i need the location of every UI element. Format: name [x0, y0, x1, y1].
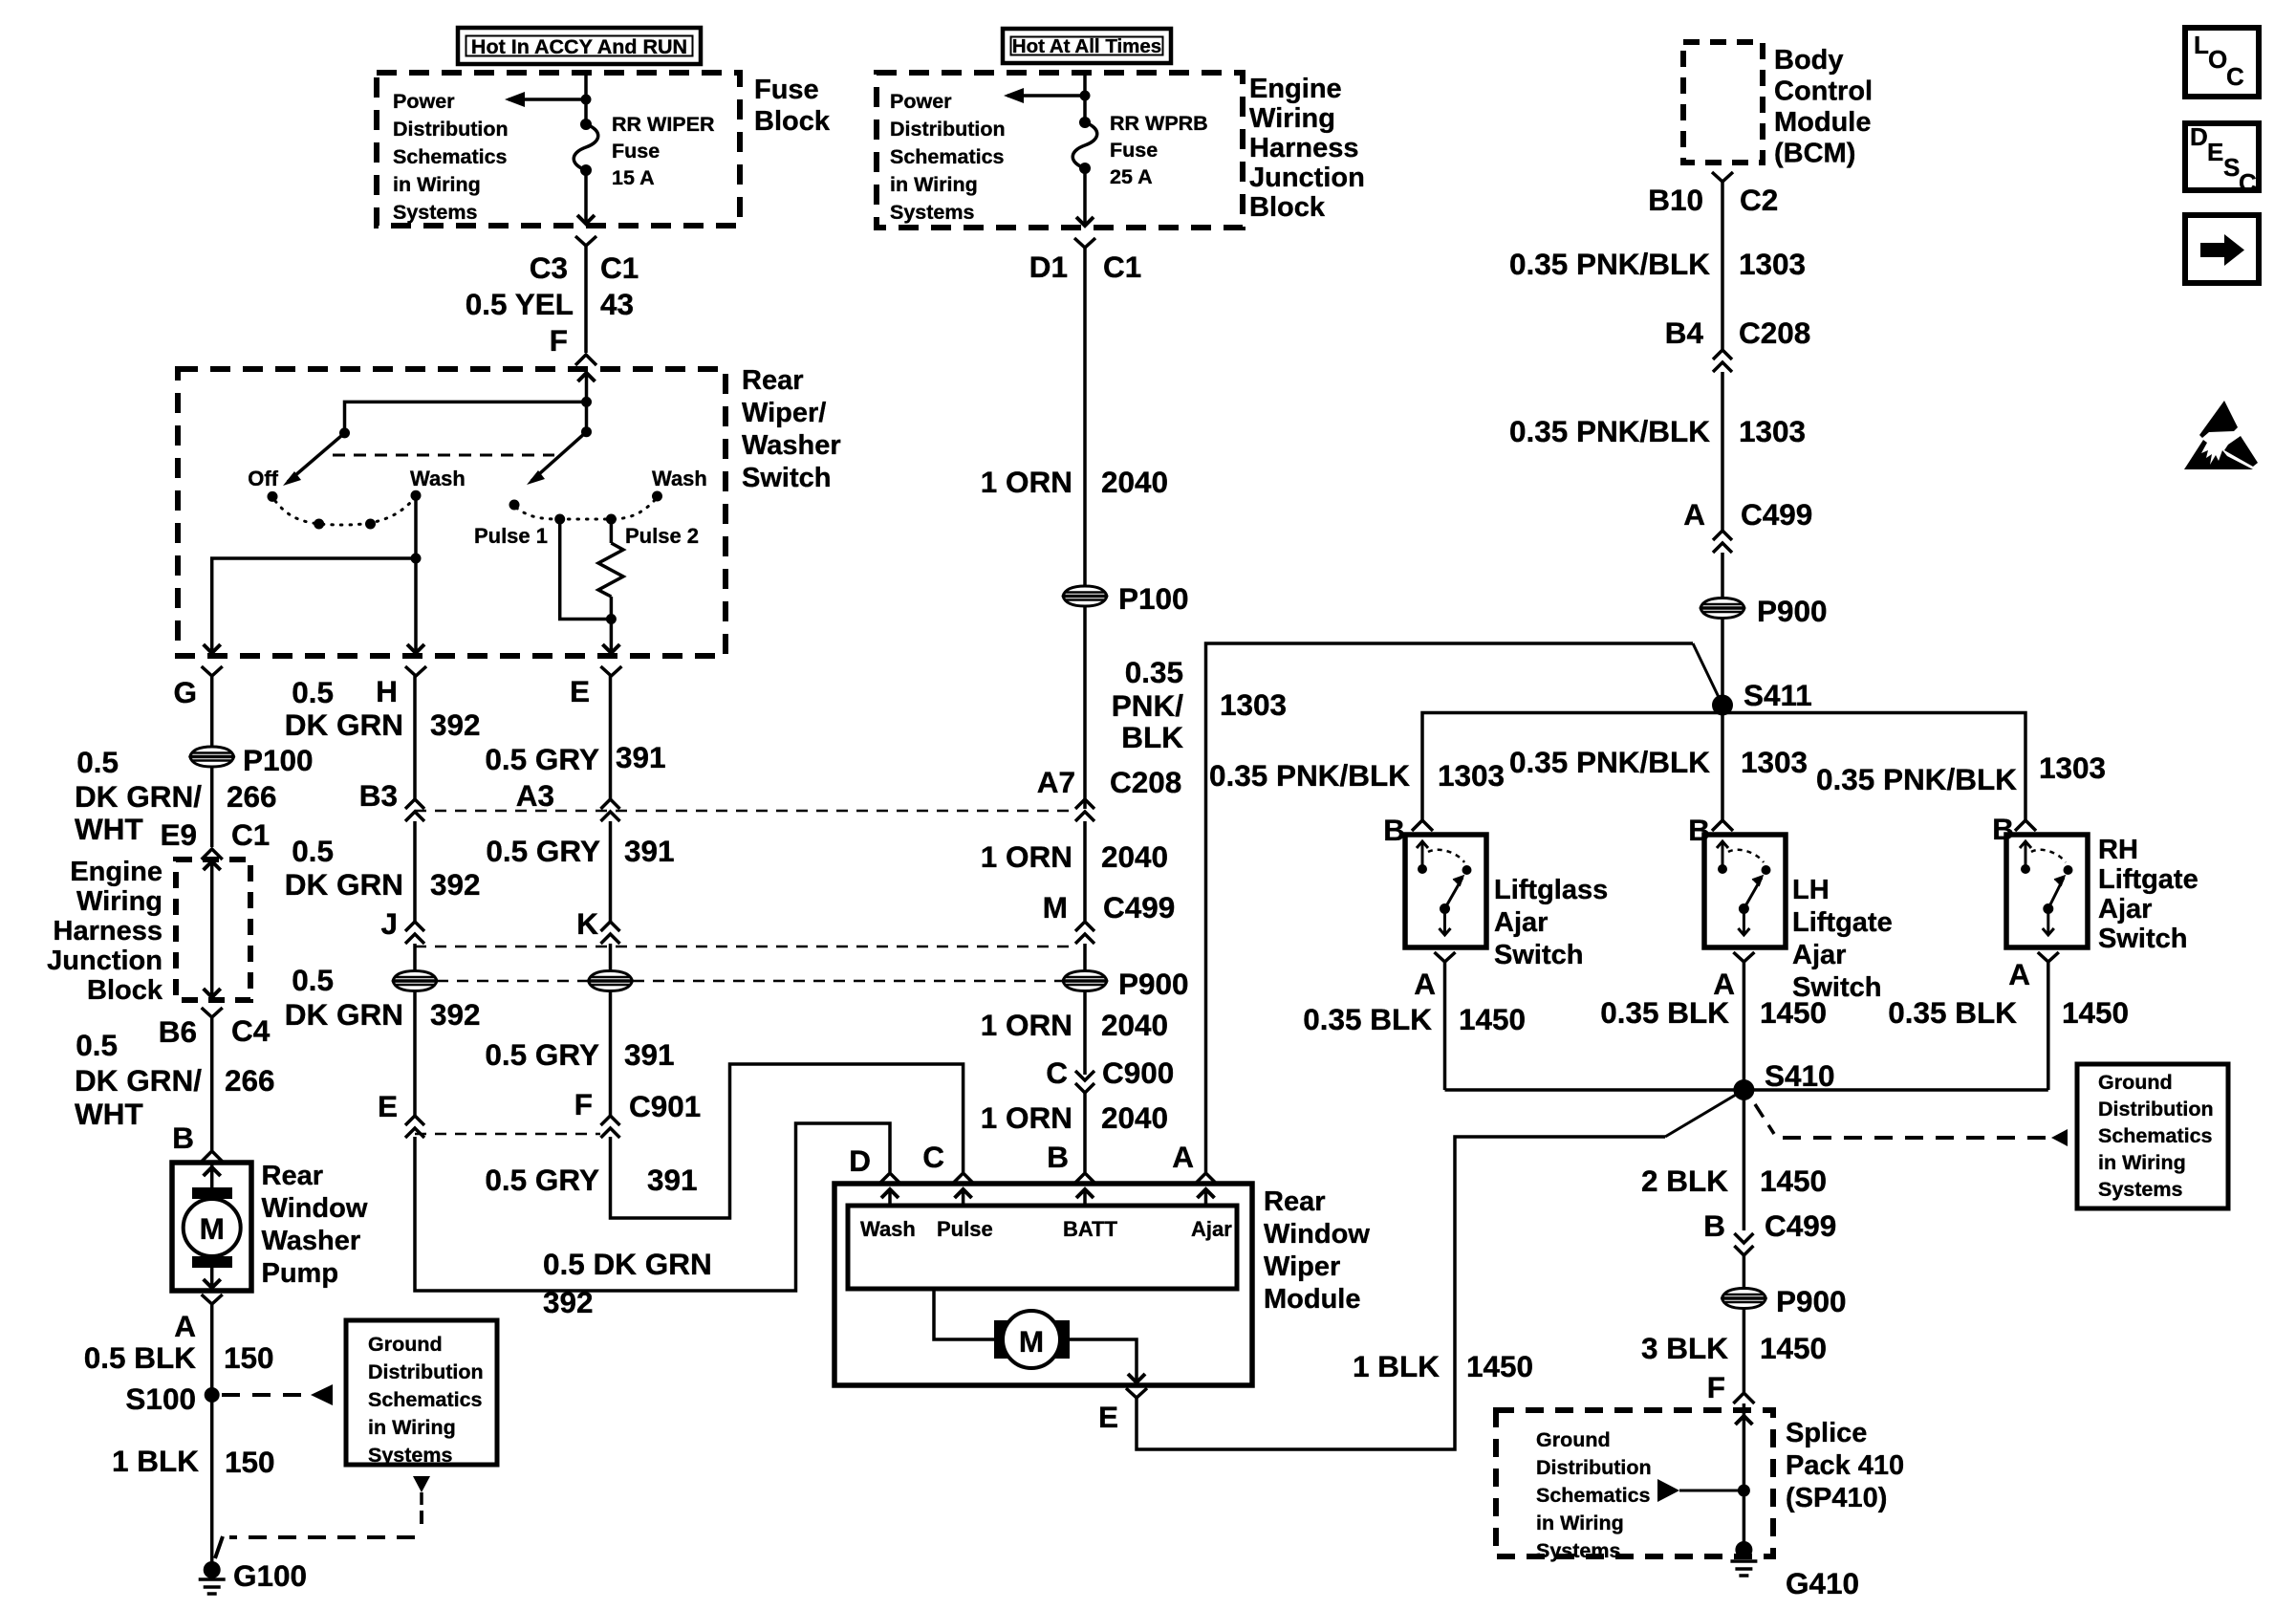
- dashed mechanical linkage: [333, 454, 554, 457]
- svg-text:392: 392: [430, 707, 481, 742]
- label: 0.5 YEL 43: [466, 287, 634, 321]
- svg-text:C208: C208: [1110, 765, 1181, 799]
- connector B/C499 (lower): [1703, 1208, 1836, 1255]
- pin B LH switch: [1688, 813, 1733, 847]
- svg-text:Distribution: Distribution: [368, 1360, 484, 1383]
- svg-text:C1: C1: [231, 817, 270, 852]
- svg-text:F: F: [574, 1087, 593, 1121]
- icon: DESC box: [2185, 122, 2259, 197]
- svg-text:S100: S100: [125, 1382, 196, 1416]
- svg-text:C3: C3: [530, 250, 568, 285]
- svg-text:Washer: Washer: [742, 430, 841, 461]
- wire: 0.5 DK GRN 392 switch H to module D: [415, 1123, 890, 1291]
- svg-text:1450: 1450: [1760, 1164, 1827, 1198]
- label: 0.5 DK GRN 392 (lower): [543, 1247, 712, 1319]
- svg-text:3 BLK: 3 BLK: [1641, 1331, 1728, 1365]
- label: 1 ORN 2040 (4): [981, 1100, 1168, 1135]
- fuse RR WPRB 25 A: [1072, 117, 1097, 174]
- label: 266: [227, 779, 277, 814]
- label: 0.5 BLK 150: [84, 1340, 274, 1375]
- liftglass ajar switch: [1405, 835, 1486, 947]
- wire: Pulse 1 contact down: [560, 519, 612, 620]
- svg-text:Switch: Switch: [742, 463, 831, 493]
- splice S100: [125, 1382, 219, 1416]
- wire: 0.5 DK GRN 392 (H upper): [413, 676, 417, 799]
- svg-text:BLK: BLK: [1121, 720, 1183, 754]
- contact: arc left dot (switch 2): [509, 500, 520, 511]
- svg-text:Rear: Rear: [742, 365, 804, 396]
- node: resistor/pulse1 junction: [606, 614, 617, 624]
- svg-text:M: M: [1019, 1324, 1044, 1359]
- svg-text:C2: C2: [1740, 183, 1778, 217]
- wire: terminal strip to motor: [934, 1289, 996, 1339]
- wire: P100 to A7: [1083, 607, 1087, 809]
- svg-text:A: A: [174, 1309, 196, 1343]
- svg-text:Body: Body: [1774, 45, 1844, 76]
- label: Splice Pack 410 (SP410): [1786, 1418, 1904, 1513]
- svg-text:Distribution: Distribution: [2098, 1098, 2214, 1120]
- svg-text:Window: Window: [262, 1193, 368, 1224]
- label: 1 BLK 150: [112, 1444, 275, 1479]
- inline connector P900 (E wire): [589, 971, 633, 991]
- wire: F pin into switch: [578, 373, 596, 402]
- connector pin G: [173, 666, 222, 709]
- svg-text:391: 391: [616, 740, 666, 774]
- icon: ESD warning symbol: [2184, 401, 2258, 469]
- svg-text:Control: Control: [1774, 76, 1873, 107]
- pin A RH switch: [2008, 952, 2059, 991]
- svg-text:1 ORN: 1 ORN: [981, 839, 1072, 874]
- svg-text:P100: P100: [243, 743, 314, 777]
- ground G410: [1730, 1541, 1859, 1600]
- svg-text:0.5: 0.5: [76, 1028, 118, 1062]
- svg-text:RH: RH: [2098, 835, 2138, 865]
- svg-text:1 ORN: 1 ORN: [981, 1008, 1072, 1042]
- svg-text:PNK/: PNK/: [1112, 688, 1184, 723]
- svg-text:DK GRN: DK GRN: [285, 867, 403, 902]
- pin F of switch: [550, 323, 596, 365]
- svg-text:Distribution: Distribution: [393, 118, 509, 141]
- svg-text:1450: 1450: [1760, 1331, 1827, 1365]
- svg-text:Ground: Ground: [1536, 1428, 1611, 1451]
- label: 1 ORN 2040 (1): [981, 465, 1168, 499]
- switch arm 2 pivot: [581, 426, 592, 437]
- engine wiring harness junction block dashed box: [877, 73, 1243, 228]
- svg-text:Liftglass: Liftglass: [1494, 875, 1608, 905]
- svg-text:1303: 1303: [1220, 687, 1287, 722]
- svg-text:Power: Power: [393, 90, 455, 113]
- svg-text:S411: S411: [1744, 678, 1812, 712]
- svg-text:0.5 GRY: 0.5 GRY: [485, 742, 599, 776]
- wire: 0.5 GRY 391 to module C: [611, 1064, 964, 1218]
- pin A liftglass switch: [1414, 952, 1455, 1001]
- svg-text:Ajar: Ajar: [1191, 1217, 1232, 1241]
- label: Rear Wiper/ Washer Switch: [742, 365, 841, 493]
- label: RH Liftgate Ajar Switch: [2098, 835, 2199, 954]
- svg-text:RR WIPER: RR WIPER: [612, 113, 715, 136]
- wire: 0.5 GRY 391 (E upper): [609, 676, 613, 799]
- body control module (BCM) dashed box: [1683, 42, 1763, 163]
- svg-text:G: G: [173, 675, 197, 709]
- label: 0.35 PNK/BLK 1303 (1): [1509, 247, 1806, 281]
- svg-text:A: A: [1414, 967, 1436, 1001]
- svg-text:O: O: [2208, 45, 2227, 74]
- svg-text:P900: P900: [1757, 594, 1828, 628]
- svg-text:C1: C1: [600, 250, 639, 285]
- connector B4/C208: [1665, 315, 1811, 372]
- svg-text:B10: B10: [1648, 183, 1703, 217]
- svg-text:C901: C901: [629, 1089, 701, 1123]
- pin B of wiper module: [1047, 1140, 1095, 1184]
- dashed connector line C208: [415, 810, 1074, 813]
- svg-text:392: 392: [543, 1285, 594, 1319]
- svg-text:A: A: [1683, 497, 1705, 532]
- note: Power Distribution Schematics in Wiring Systems (junction block): [890, 90, 1006, 224]
- svg-text:Pack 410: Pack 410: [1786, 1450, 1904, 1481]
- label: Rear Window Washer Pump: [262, 1161, 368, 1289]
- wire: 2 BLK 1450 S410 down: [1743, 1090, 1746, 1230]
- label: RR WPRB Fuse 25 A: [1110, 112, 1208, 188]
- svg-text:Schematics: Schematics: [1536, 1484, 1651, 1507]
- label: 0.5 DK GRN 392 (2): [285, 834, 481, 902]
- svg-text:Schematics: Schematics: [368, 1388, 483, 1411]
- wire: junction to E pin: [602, 620, 619, 654]
- svg-text:B: B: [1383, 813, 1405, 847]
- label: 1 ORN 2040 (2): [981, 839, 1168, 874]
- wire: 0.35 PNK/BLK 1303 (C208 to C499): [1721, 372, 1724, 531]
- svg-text:B4: B4: [1665, 315, 1704, 350]
- svg-text:Schematics: Schematics: [393, 145, 508, 168]
- svg-text:Junction: Junction: [47, 946, 162, 976]
- svg-text:S: S: [2223, 153, 2240, 182]
- pin B RH switch: [1992, 812, 2036, 846]
- wire: Wash contact down to H: [407, 558, 424, 653]
- header label: Hot In ACCY And RUN: [458, 28, 701, 64]
- wire: 0.5 YEL 43: [584, 246, 588, 353]
- icon: arrow box: [2185, 215, 2259, 283]
- svg-text:1450: 1450: [1466, 1349, 1533, 1383]
- label: Liftglass Ajar Switch: [1494, 875, 1608, 970]
- wire: LH A to S410: [1743, 962, 1746, 1090]
- contact: Wash (right): [652, 491, 662, 502]
- svg-text:15 A: 15 A: [612, 166, 655, 189]
- inline connector P100 (G wire): [190, 743, 314, 777]
- label: 0.5 GRY 391 (4): [485, 1163, 697, 1197]
- svg-text:1 BLK: 1 BLK: [1353, 1349, 1440, 1383]
- svg-text:Wash: Wash: [652, 467, 707, 490]
- ground distribution reference box (right): [2077, 1064, 2228, 1208]
- pin A of washer pump: [174, 1295, 222, 1343]
- svg-text:Systems: Systems: [393, 201, 477, 224]
- wire: RH A to S410: [2047, 962, 2050, 1090]
- svg-text:1303: 1303: [1438, 758, 1505, 793]
- label: 3 BLK 1450: [1641, 1331, 1827, 1365]
- node: right pivot junction: [581, 397, 592, 432]
- svg-text:Power: Power: [890, 90, 952, 113]
- dashed reference from S410: [1755, 1104, 2068, 1146]
- svg-text:2 BLK: 2 BLK: [1641, 1164, 1728, 1198]
- svg-text:LH: LH: [1792, 875, 1830, 905]
- svg-text:0.5 DK GRN: 0.5 DK GRN: [543, 1247, 712, 1281]
- svg-text:0.35 PNK/BLK: 0.35 PNK/BLK: [1816, 762, 2017, 796]
- contact: Wash (left): [411, 490, 422, 501]
- svg-text:WHT: WHT: [75, 812, 143, 846]
- svg-text:Fuse: Fuse: [612, 140, 660, 163]
- label Wash (right): [652, 467, 707, 490]
- pin F of splice pack: [1707, 1370, 1755, 1404]
- fuse block dashed box: [377, 73, 740, 226]
- svg-text:C: C: [922, 1140, 944, 1174]
- label Pulse 2: [625, 524, 699, 548]
- svg-text:F: F: [550, 323, 568, 358]
- svg-text:DK GRN/: DK GRN/: [75, 779, 202, 814]
- connector E (C901): [378, 1089, 424, 1138]
- pin B of washer pump: [172, 1120, 222, 1162]
- svg-text:Harness: Harness: [54, 916, 162, 946]
- wire: Ajar to S411: [1206, 643, 1723, 1172]
- label Wash (left): [410, 467, 466, 490]
- connector A3 (C208): [516, 778, 620, 821]
- svg-text:E9: E9: [160, 817, 197, 852]
- resistor (pulse delay): [598, 519, 623, 620]
- svg-text:43: 43: [600, 287, 634, 321]
- splice pack 410 dashed box: [1496, 1410, 1773, 1556]
- svg-text:Wiring: Wiring: [1249, 103, 1335, 134]
- svg-text:L: L: [2194, 31, 2209, 59]
- svg-text:266: 266: [225, 1063, 275, 1098]
- svg-text:DK GRN/: DK GRN/: [75, 1063, 202, 1098]
- svg-text:392: 392: [430, 867, 481, 902]
- label: 0.35 BLK 1450 (liftglass): [1303, 1002, 1526, 1036]
- svg-text:P900: P900: [1776, 1284, 1847, 1318]
- inline connector P900 (BCM wire): [1700, 594, 1828, 628]
- wire: P100 to C1: [210, 768, 214, 847]
- svg-text:392: 392: [430, 997, 481, 1032]
- svg-text:D: D: [849, 1143, 871, 1178]
- svg-text:0.35 BLK: 0.35 BLK: [1303, 1002, 1432, 1036]
- contact: Pulse 2: [606, 514, 617, 525]
- svg-text:E: E: [1098, 1400, 1118, 1434]
- dashed connector line C499: [415, 946, 1074, 948]
- svg-text:391: 391: [624, 834, 675, 868]
- wire: 1 BLK 1450 from E to S410: [1137, 1092, 1741, 1449]
- inline connector P100 (middle): [1063, 581, 1189, 616]
- RH liftgate ajar switch: [2006, 835, 2088, 947]
- wire: E between C208 and C499: [609, 821, 613, 922]
- svg-text:Ground: Ground: [368, 1333, 443, 1356]
- svg-text:in Wiring: in Wiring: [2098, 1151, 2186, 1174]
- connector J (C499): [380, 906, 424, 944]
- label: DK GRN 392 (1): [285, 707, 481, 742]
- label: 0.35 PNK/BLK 1303 (2): [1509, 414, 1806, 448]
- connector C/C900: [1046, 1055, 1174, 1093]
- svg-text:Washer: Washer: [262, 1226, 361, 1256]
- svg-text:in Wiring: in Wiring: [890, 173, 978, 196]
- svg-text:P100: P100: [1118, 581, 1189, 616]
- engine wiring harness junction block (left) dashed box: [176, 859, 250, 1000]
- switch arm 2 (to Pulse): [527, 432, 587, 485]
- wire: battery feed into fuse block: [584, 73, 588, 124]
- label: 0.5 DK GRN/ WHT: [75, 745, 202, 846]
- pin D of wiper module: [849, 1143, 900, 1184]
- connector E9/C1: [160, 817, 270, 859]
- wire: H between C208 and C499: [413, 821, 417, 922]
- switch arm 1 (to Off): [283, 433, 345, 486]
- svg-text:Block: Block: [1249, 192, 1326, 223]
- svg-text:Rear: Rear: [1264, 1186, 1326, 1217]
- svg-text:B3: B3: [359, 778, 398, 813]
- svg-text:BATT: BATT: [1063, 1217, 1118, 1241]
- reference arrow below box: [413, 1476, 430, 1505]
- svg-text:1 ORN: 1 ORN: [981, 1100, 1072, 1135]
- svg-text:Switch: Switch: [2098, 924, 2187, 954]
- label: 1 BLK 1450 (module): [1353, 1349, 1533, 1383]
- svg-text:S410: S410: [1765, 1058, 1835, 1093]
- dotted arc switch 2: [516, 500, 655, 519]
- dotted arc switch 1: [275, 500, 413, 530]
- label: Engine Wiring Harness Junction Block (right of box): [1249, 74, 1365, 223]
- svg-text:2040: 2040: [1101, 465, 1168, 499]
- wire: 0.5 BLK 150: [210, 1304, 214, 1568]
- wire: fuse to D1: [1076, 168, 1094, 226]
- label: 0.35 BLK 1450 (LH): [1600, 995, 1827, 1030]
- svg-text:0.35 PNK/BLK: 0.35 PNK/BLK: [1509, 414, 1710, 448]
- inline connector P900 (H wire): [393, 971, 437, 991]
- switch arm 1 pivot: [339, 427, 350, 438]
- svg-text:Wiring: Wiring: [76, 886, 162, 917]
- svg-text:B: B: [1047, 1140, 1069, 1174]
- svg-text:1 ORN: 1 ORN: [981, 465, 1072, 499]
- svg-text:150: 150: [224, 1340, 274, 1375]
- inline connector P900 (lower): [1722, 1284, 1846, 1318]
- wire: motor to pin E: [1068, 1339, 1145, 1383]
- wire: 0.5 DK GRN/WHT 266 (G): [210, 676, 214, 746]
- module terminal strip box: [848, 1206, 1237, 1289]
- svg-text:Pulse 2: Pulse 2: [625, 524, 699, 548]
- svg-text:Systems: Systems: [368, 1444, 452, 1467]
- wire: 0.35 PNK/BLK 1303 (BCM to C208): [1721, 182, 1724, 350]
- connector B3 (C208): [359, 778, 424, 821]
- module motor M: [994, 1311, 1070, 1368]
- svg-text:Block: Block: [87, 975, 163, 1006]
- connector A/C499: [1683, 497, 1812, 553]
- svg-text:0.35 BLK: 0.35 BLK: [1888, 995, 2017, 1030]
- svg-text:A3: A3: [516, 778, 554, 813]
- svg-text:Ground: Ground: [2098, 1071, 2173, 1094]
- svg-text:0.5: 0.5: [292, 834, 334, 868]
- svg-text:0.35 PNK/BLK: 0.35 PNK/BLK: [1209, 758, 1410, 793]
- svg-text:Module: Module: [1264, 1284, 1361, 1315]
- label Off: [248, 467, 278, 490]
- label: Rear Window Wiper Module: [1264, 1186, 1370, 1315]
- svg-text:Wiper/: Wiper/: [742, 398, 826, 428]
- pin A of wiper module: [1172, 1140, 1216, 1184]
- svg-text:C900: C900: [1102, 1055, 1174, 1090]
- note: Power Distribution Schematics in Wiring Systems (fuse block): [393, 90, 509, 224]
- wire: 1 ORN 2040 (upper): [1083, 248, 1087, 585]
- wire: 1 ORN 2040 (third): [1083, 991, 1087, 1075]
- wire: 1 ORN 2040 (second): [1083, 821, 1087, 921]
- svg-text:Engine: Engine: [1249, 74, 1342, 104]
- svg-text:Harness: Harness: [1249, 133, 1358, 163]
- label: 0.35 BLK 1450 (RH): [1888, 995, 2129, 1030]
- svg-text:C499: C499: [1765, 1208, 1836, 1243]
- svg-text:in Wiring: in Wiring: [1536, 1512, 1624, 1534]
- svg-text:Hot At All Times: Hot At All Times: [1012, 35, 1161, 57]
- svg-text:Pump: Pump: [262, 1258, 339, 1289]
- svg-text:Ajar: Ajar: [1494, 907, 1548, 938]
- label: 0.5 GRY 391 (3): [485, 1037, 674, 1072]
- splice S410: [1445, 1058, 2048, 1100]
- svg-text:Splice: Splice: [1786, 1418, 1867, 1448]
- label: 0.35 PNK/BLK 1303 (liftglass): [1209, 758, 1505, 793]
- svg-text:Wiper: Wiper: [1264, 1251, 1340, 1282]
- svg-text:(SP410): (SP410): [1786, 1483, 1887, 1513]
- svg-text:C: C: [2226, 62, 2244, 91]
- svg-text:J: J: [380, 906, 398, 941]
- label: 0.5 GRY 391 (2): [486, 834, 674, 868]
- svg-text:Systems: Systems: [1536, 1539, 1620, 1562]
- svg-text:RR WPRB: RR WPRB: [1110, 112, 1208, 135]
- rear window washer pump box: [172, 1163, 251, 1291]
- LH liftgate ajar switch: [1704, 835, 1786, 947]
- wire: to P900 (middle): [1083, 944, 1087, 970]
- rear wiper/washer switch dashed box: [178, 369, 726, 656]
- connector D1/C1: [1029, 238, 1142, 284]
- svg-text:D: D: [2190, 122, 2208, 151]
- svg-text:266: 266: [227, 779, 277, 814]
- label: 0.5 DK GRN 392 (3): [285, 963, 481, 1032]
- label: 0.35 PNK/ BLK 1303 (ajar wire): [1112, 655, 1287, 754]
- svg-text:Liftgate: Liftgate: [1792, 907, 1893, 938]
- note: Ground Distribution Schematics in Wiring Systems (splice pack): [1536, 1428, 1652, 1562]
- contact: Pulse 1: [554, 514, 565, 525]
- svg-text:G410: G410: [1786, 1566, 1859, 1600]
- connector F (C901): [574, 1087, 702, 1138]
- fuse block label: [754, 75, 831, 137]
- svg-text:E: E: [378, 1089, 398, 1123]
- connector B6/C4: [159, 1008, 271, 1049]
- svg-text:1303: 1303: [2039, 751, 2106, 785]
- svg-text:0.5 GRY: 0.5 GRY: [485, 1037, 599, 1072]
- label: 0.35 PNK/BLK 1303 (LH): [1509, 745, 1808, 779]
- wire: S411 to LH switch: [1721, 713, 1724, 823]
- wire: switch common bus: [345, 402, 587, 433]
- wire: P900 to S411: [1721, 619, 1724, 712]
- inline connector P900 (middle): [1063, 967, 1189, 1001]
- svg-text:C499: C499: [1741, 497, 1812, 532]
- svg-text:WHT: WHT: [75, 1097, 143, 1131]
- svg-text:1450: 1450: [2062, 995, 2129, 1030]
- wire: 3 BLK 1450: [1743, 1309, 1746, 1392]
- svg-text:(BCM): (BCM): [1774, 139, 1855, 169]
- svg-text:K: K: [576, 906, 598, 941]
- connector pin H: [292, 666, 426, 709]
- svg-text:H: H: [376, 674, 398, 708]
- svg-text:2040: 2040: [1101, 1008, 1168, 1042]
- svg-text:A: A: [1172, 1140, 1194, 1174]
- svg-text:Schematics: Schematics: [2098, 1124, 2213, 1147]
- wire: fuse output to C1: [577, 170, 595, 224]
- svg-text:A7: A7: [1037, 765, 1075, 799]
- connector M/C499: [1043, 890, 1176, 944]
- svg-text:1303: 1303: [1741, 745, 1808, 779]
- wire: E to P900: [609, 944, 613, 970]
- node: fuse feed junction: [581, 95, 592, 105]
- wire into splice pack: [1735, 1403, 1752, 1549]
- svg-text:1450: 1450: [1760, 995, 1827, 1030]
- svg-text:E: E: [2207, 138, 2223, 166]
